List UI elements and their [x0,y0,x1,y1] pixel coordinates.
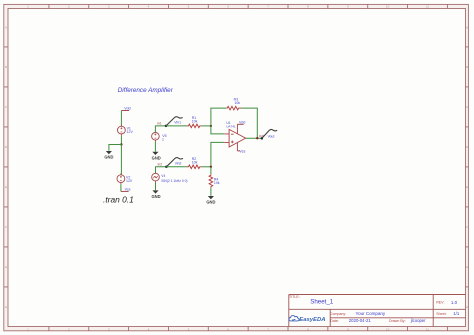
label V4 SIN(2 1 1kHz 0 0) [161,174,187,183]
svg-text:Vss: Vss [239,149,245,153]
label V1 12V [127,127,134,135]
svg-text:V4: V4 [161,174,165,178]
svg-text:11: 11 [426,5,429,9]
svg-text:1: 1 [162,138,164,142]
svg-text:REV:: REV: [436,301,444,305]
svg-text:10k: 10k [214,181,220,185]
svg-text:in1: in1 [157,122,162,126]
svg-text:A: A [466,26,468,30]
junction in1/R3/op-amp [210,125,212,127]
svg-text:12V: 12V [127,130,134,134]
svg-text:10k: 10k [234,101,240,105]
title block [289,295,466,327]
resistor R2 [187,165,201,169]
wire R3 to output node [241,108,257,138]
wire junction to V2 [120,145,123,175]
svg-text:.tran 0.1: .tran 0.1 [103,195,134,205]
svg-text:Vin1: Vin1 [174,121,181,125]
wire V1 to junction [120,136,122,145]
svg-text:Vdd: Vdd [124,107,130,111]
svg-text:GND: GND [206,200,215,205]
svg-text:TITLE:: TITLE: [289,295,300,299]
label R3 10k [234,98,241,105]
voltage source V2 [117,173,125,184]
svg-text:F: F [5,225,7,229]
net flag Vss (bottom of V2) [121,188,131,192]
op-amp U1 UA741 [224,124,245,151]
svg-text:10k: 10k [192,161,198,165]
svg-text:10: 10 [386,5,390,9]
junction R2/R4 [210,166,212,168]
svg-text:11: 11 [426,327,429,331]
resistor R1 [187,124,201,128]
ground GND (under R4) [206,196,215,205]
voltage probe Vin2 [165,158,183,168]
wire R1 to junction [201,125,211,127]
wire op-amp output [246,137,262,139]
voltage probe Vout [261,129,278,139]
wire V2 to Vss flag [120,184,122,191]
svg-text:F: F [466,225,468,229]
svg-text:Date:: Date: [330,319,339,323]
svg-text:1/1: 1/1 [453,311,460,316]
svg-text:B: B [466,65,468,69]
net flag Vdd (U1 power pin) [237,120,245,124]
svg-text:2020-04-21: 2020-04-21 [349,318,372,323]
label R2 10k [192,157,198,164]
svg-text:A: A [5,26,7,30]
svg-text:Vss: Vss [125,188,131,192]
wire junction to op-amp inverting input [211,126,224,134]
net flag Vdd (top of V1) [121,107,130,111]
svg-text:Sheet_1: Sheet_1 [310,299,334,306]
svg-text:Your Company: Your Company [356,311,386,316]
svg-text:1.0: 1.0 [451,300,458,305]
wire Vdd to V1 [120,111,122,127]
voltage source V1 [118,125,126,136]
svg-text:Drawn By:: Drawn By: [389,319,406,323]
label U1 UA741 [226,121,236,129]
svg-text:10: 10 [386,327,390,331]
wire V5 up to row in1 [155,126,166,133]
svg-text:in2: in2 [158,162,163,166]
svg-text:Vdd: Vdd [239,120,245,124]
wire V4 down to ground [155,182,157,190]
svg-text:Vout: Vout [268,134,275,138]
svg-text:12V: 12V [126,179,133,183]
EasyEDA logo [289,316,326,324]
wire V4 up to row in2 [156,167,167,174]
wire R4 to ground [210,188,212,196]
wire R2 to junction [201,166,211,168]
wire junction up to R3 [211,108,226,126]
label V5 1 [162,134,167,142]
label R4 10k [214,178,220,186]
net flag Vss (U1 power pin) [237,149,245,153]
resistor R4 [209,174,213,188]
ground GND (under V5) [152,152,161,161]
junction V1/V2/GND [120,143,122,145]
svg-text:EasyEDA: EasyEDA [299,317,325,323]
svg-text:Vin2: Vin2 [175,162,182,166]
svg-text:GND: GND [104,155,113,160]
label V2 12V [126,175,133,183]
resistor R3 [226,106,241,110]
ground GND (left) [104,151,113,160]
svg-text:E: E [466,185,468,189]
label R1 10k [192,116,198,123]
voltage probe Vin1 [165,117,183,127]
svg-text:E: E [5,185,7,189]
wire V5 down to ground [154,142,156,152]
wire in1 row to R1 [166,125,187,127]
svg-text:H: H [5,305,7,309]
svg-text:Sheet:: Sheet: [436,312,446,316]
svg-text:10k: 10k [192,120,198,124]
wire junction to ground [109,145,122,151]
svg-text:SIN(2 1 1kHz 0 0): SIN(2 1 1kHz 0 0) [161,179,187,183]
ground GND (under V4) [151,190,160,199]
wire R2 junction to op-amp non-inverting input [211,142,224,166]
svg-text:Company:: Company: [330,312,346,316]
svg-text:UA741: UA741 [226,125,236,129]
voltage source V5 [152,131,160,142]
svg-text:GND: GND [151,194,160,199]
svg-text:jlcooper: jlcooper [410,318,427,323]
svg-text:GND: GND [152,155,161,160]
svg-text:Difference Amplifier: Difference Amplifier [118,87,174,94]
wire in2 row to R2 [166,166,187,168]
junction output node [256,137,258,139]
svg-text:H: H [466,305,468,309]
svg-text:B: B [5,65,7,69]
wire junction down to R4 [210,167,212,174]
voltage source V4 (sine) [152,172,160,183]
